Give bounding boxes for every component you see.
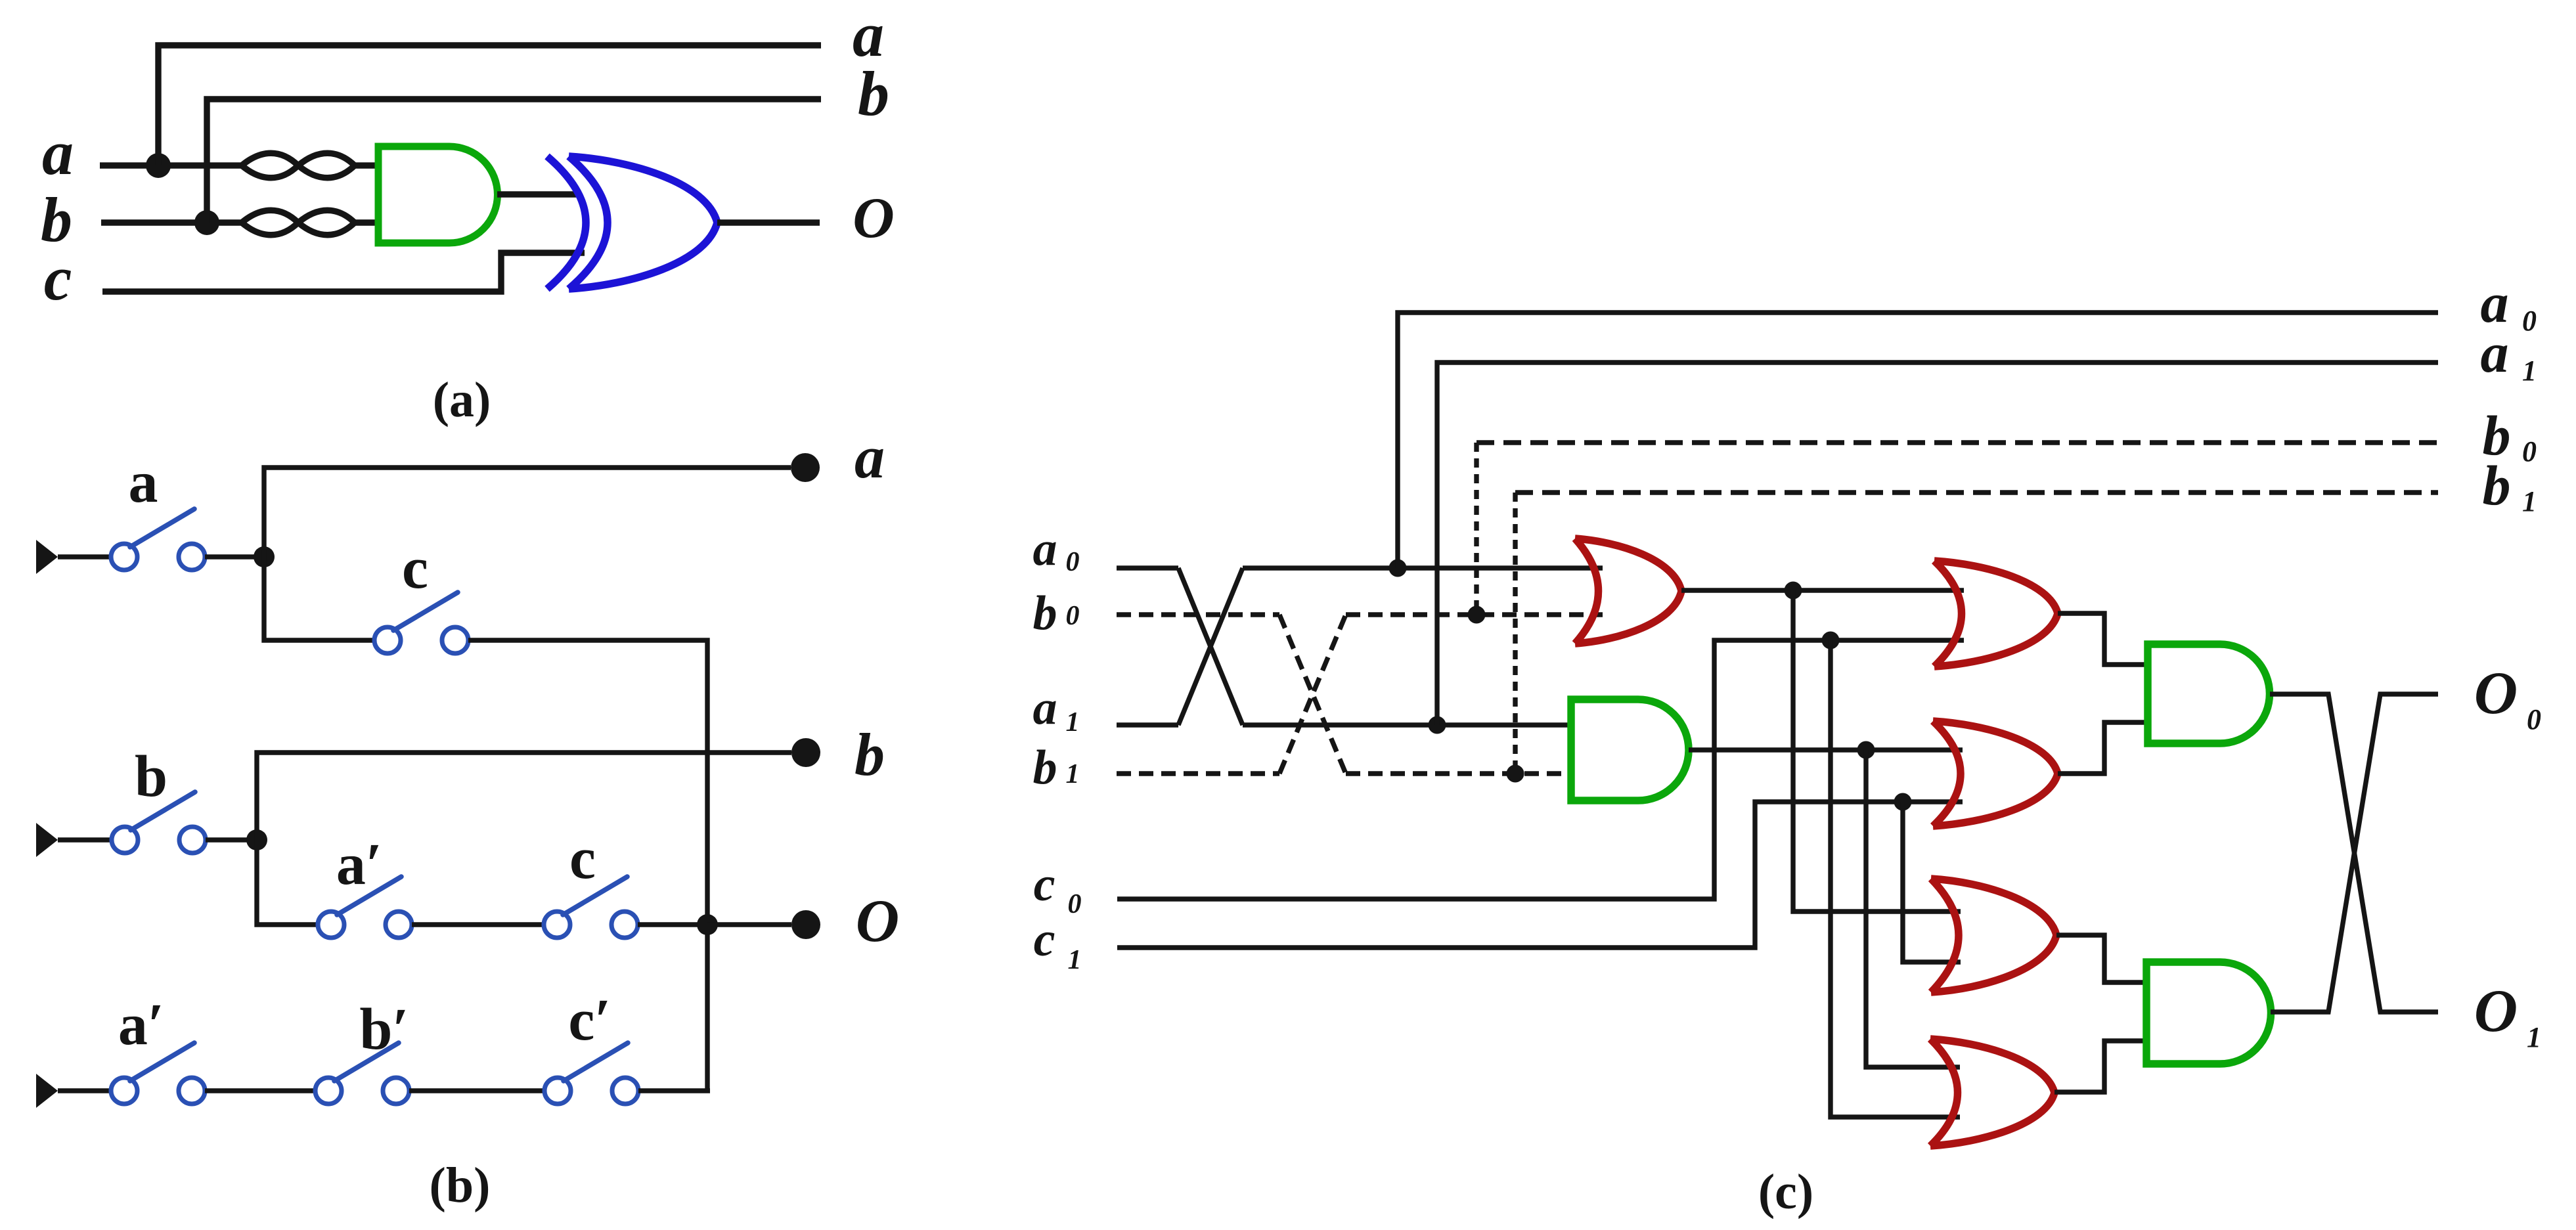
svg-text:a′: a′ [336, 832, 382, 897]
terminal dot b (fig b) [791, 738, 820, 767]
OR gate 3 stage2 (fig c) [1933, 721, 2058, 826]
wire switch c to vertical bus (fig b) [468, 640, 707, 1091]
twisted pair on a input (fig a) [242, 153, 355, 178]
wire a0 input stub (fig c) [1117, 565, 1178, 570]
wire b0 input stub dashed (fig c) [1117, 612, 1279, 617]
figure (c): two-rail logic circuit [0, 0, 1, 1]
svg-text:b: b [855, 721, 885, 788]
wire switch b to junction (fig b) [206, 837, 257, 842]
wire dashed to AND1 bottom input (fig c) [1346, 771, 1571, 776]
svg-text:a: a [855, 424, 885, 491]
node tap b1 (fig c) [1507, 765, 1524, 783]
wire arrow to switch a-prime row3 (fig b) [58, 1088, 111, 1093]
wire OR2 to AND O0 (fig c) [2058, 613, 2148, 665]
node junction on a (fig a) [146, 153, 171, 178]
svg-text:1: 1 [2527, 1021, 2541, 1053]
svg-text:c: c [402, 536, 428, 601]
svg-text:a: a [2481, 321, 2509, 384]
svg-text:b: b [135, 744, 167, 809]
wire to output O (fig b) [707, 922, 791, 927]
svg-text:a: a [42, 118, 74, 188]
svg-text:1: 1 [2522, 485, 2537, 517]
wire switch c to O junction (fig b) [638, 922, 707, 927]
wire b1 input stub dashed (fig c) [1117, 771, 1279, 776]
terminal dot a (fig b) [791, 453, 820, 482]
wire OR4 to AND O1 (fig c) [2056, 935, 2146, 982]
switch b (fig b) [112, 792, 206, 853]
wire dashed b0 rail (fig c) [1477, 440, 2438, 445]
svg-text:0: 0 [1068, 889, 1082, 919]
input arrow row3 (fig b) [36, 1074, 58, 1108]
svg-text:a: a [1033, 681, 1057, 735]
terminal dot O (fig b) [791, 910, 820, 939]
wire AND1 output (fig c) [1689, 747, 1963, 752]
wire branch down to OR5 top (fig c) [1866, 750, 1960, 1067]
twisted pair on b input (fig a) [242, 210, 355, 235]
node junction on b (fig a) [194, 210, 219, 235]
switch a-prime row3 (fig b) [111, 1043, 205, 1104]
input arrow row2 (fig b) [36, 823, 58, 857]
switch c row2 (fig b) [544, 877, 638, 938]
wire OR5 to AND O1 (fig c) [2054, 1041, 2146, 1092]
node junction row2 (fig b) [246, 829, 267, 850]
svg-text:a: a [129, 450, 158, 515]
svg-text:(b): (b) [430, 1158, 491, 1213]
wire row3 segment 2 (fig b) [409, 1088, 544, 1093]
svg-text:b: b [858, 58, 889, 129]
wire row3 to vertical bus (fig b) [638, 1088, 710, 1093]
wire branch down to OR5 bottom (fig c) [1831, 640, 1960, 1117]
svg-text:1: 1 [2522, 355, 2537, 387]
svg-text:0: 0 [1066, 601, 1080, 631]
node junction OR1 output (fig c) [1785, 582, 1802, 600]
wire between switches row2 (fig b) [412, 922, 544, 927]
wire input b (fig a) [101, 219, 242, 225]
svg-text:c: c [1034, 858, 1055, 912]
switch c-prime row3 (fig b) [544, 1043, 638, 1104]
wire branch down to OR4 top (fig c) [1793, 590, 1961, 912]
OR gate 5 stage2 (fig c) [1930, 1039, 2054, 1146]
svg-text:O: O [2474, 977, 2518, 1044]
wire OR3 to AND O0 (fig c) [2058, 722, 2148, 774]
node tap a1 (fig c) [1429, 716, 1446, 734]
svg-text:O: O [856, 887, 899, 954]
svg-text:b: b [1033, 741, 1057, 795]
wire input a (fig a) [100, 162, 242, 168]
wire dashed crossing b0-b1 (fig c) [1279, 615, 1346, 774]
node tap b0 (fig c) [1468, 606, 1486, 624]
wire dashed tap b1 riser (fig c) [1513, 493, 1517, 774]
wire AND O0 output into crossing (fig c) [2270, 694, 2438, 1012]
wire dashed b1 rail (fig c) [1515, 490, 2438, 494]
node junction AND1 output (fig c) [1857, 741, 1875, 759]
wire to OR1 top input (fig c) [1243, 565, 1603, 570]
node O junction (fig b) [697, 914, 718, 935]
svg-text:0: 0 [2527, 703, 2541, 736]
svg-text:(c): (c) [1758, 1164, 1813, 1219]
wire arrow to switch a (fig b) [58, 554, 111, 559]
XOR gate U2 (fig a) [547, 156, 586, 289]
switch a (fig b) [111, 509, 205, 570]
svg-text:0: 0 [2522, 435, 2537, 468]
svg-text:0: 0 [2522, 305, 2537, 337]
wire junction down to switch c (fig b) [264, 557, 374, 640]
node junction row1 (fig b) [254, 546, 275, 567]
wire branch b to second rail (fig a) [207, 99, 821, 223]
wire input c to XOR (fig a) [102, 253, 585, 292]
svg-text:1: 1 [1066, 759, 1080, 789]
wire arrow to switch b (fig b) [58, 837, 112, 842]
figure (b): switch network [0, 0, 1, 1]
wire dashed tap b0 riser (fig c) [1474, 443, 1478, 615]
wire branch a to top rail (fig a) [158, 45, 821, 165]
wire input c0 (fig c) [1117, 640, 1964, 899]
wire AND output to XOR (fig a) [497, 191, 578, 197]
wire tap a0 riser and rail (fig c) [1398, 313, 2438, 568]
svg-text:b: b [1033, 586, 1057, 640]
svg-text:a′: a′ [118, 992, 164, 1057]
svg-text:O: O [853, 187, 895, 250]
wire input c1 (fig c) [1117, 802, 1963, 948]
svg-text:b′: b′ [359, 997, 409, 1062]
wire AND O1 output into crossing (fig c) [2271, 694, 2438, 1012]
wire input b after twist (fig a) [355, 219, 378, 225]
svg-text:c′: c′ [568, 988, 611, 1053]
AND gate O1 (fig c) [2146, 962, 2271, 1064]
wire solid crossing a0-a1 (fig c) [1178, 568, 1243, 725]
svg-text:O: O [2474, 659, 2518, 726]
wire tap a1 riser and rail (fig c) [1437, 362, 2438, 725]
svg-text:(a): (a) [433, 372, 491, 428]
svg-text:1: 1 [1068, 945, 1082, 975]
OR gate 4 stage2 (fig c) [1931, 879, 2056, 992]
switch b-prime row3 (fig b) [315, 1043, 409, 1104]
svg-text:b: b [2483, 454, 2511, 517]
wire junction down to switch a-prime (fig b) [257, 840, 318, 925]
wire junction up to output b (fig b) [257, 753, 791, 840]
wire OR1 output (fig c) [1681, 588, 1964, 592]
svg-text:a: a [1033, 522, 1057, 576]
switch a-prime row2 (fig b) [318, 877, 412, 938]
svg-text:c: c [44, 243, 72, 313]
wire branch down to OR4 bottom (fig c) [1903, 802, 1961, 962]
wire a1 input stub (fig c) [1117, 722, 1178, 727]
node junction on c0 line (fig c) [1822, 632, 1840, 649]
wire XOR output O (fig a) [717, 219, 820, 225]
AND gate O0 (fig c) [2148, 644, 2270, 743]
svg-text:c: c [569, 826, 596, 891]
wire input a after twist (fig a) [355, 162, 378, 168]
svg-text:c: c [1034, 913, 1055, 967]
svg-text:0: 0 [1066, 547, 1080, 577]
svg-text:1: 1 [1066, 707, 1080, 737]
node junction on c1 line (fig c) [1894, 793, 1912, 811]
wire dashed to OR1 bottom input (fig c) [1346, 612, 1603, 617]
wire junction up to output a (fig b) [264, 468, 791, 557]
wire switch a to junction (fig b) [205, 554, 264, 559]
figure (a): AND-XOR majority gate circuit [0, 0, 1, 1]
input arrow row1 (fig b) [36, 540, 58, 574]
wire row3 segment 1 (fig b) [205, 1088, 315, 1093]
switch c row1 (fig b) [374, 592, 468, 653]
AND gate 1 stage1 (fig c) [1571, 699, 1689, 801]
OR gate 2 stage2 (fig c) [1934, 561, 2058, 667]
OR gate 1 stage1 (fig c) [1575, 538, 1681, 644]
AND gate U1 (fig a) [378, 146, 497, 243]
wire to AND1 top input (fig c) [1243, 722, 1571, 727]
node tap a0 (fig c) [1389, 560, 1407, 577]
